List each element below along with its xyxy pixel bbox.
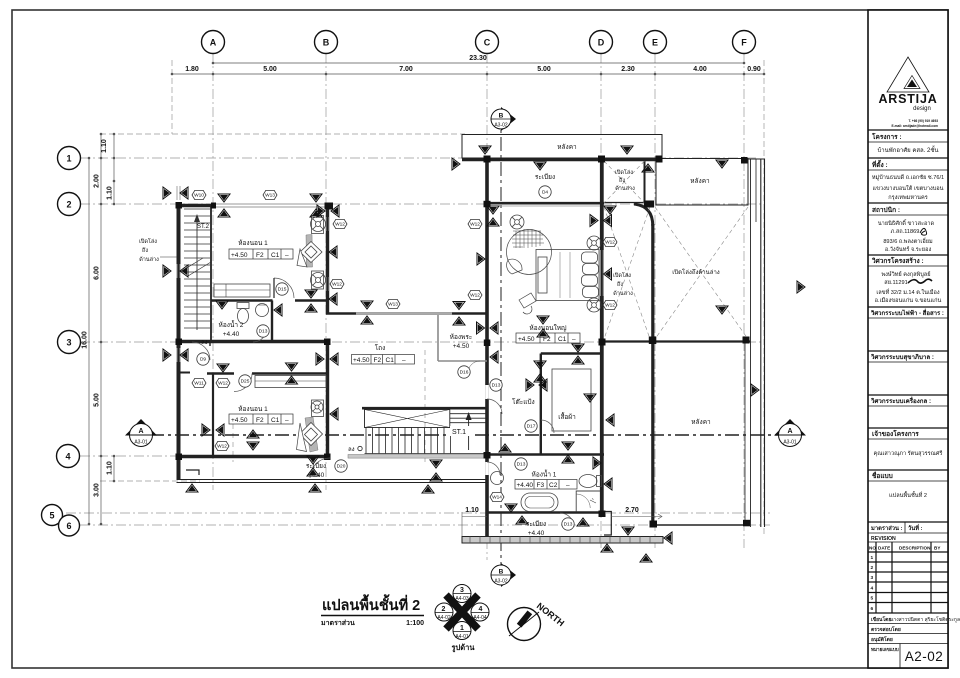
svg-text:ระเบียง: ระเบียง xyxy=(535,173,555,181)
bed upper-left bedroom (diagonal) xyxy=(297,235,322,268)
row bubble 4 xyxy=(57,445,80,468)
bathroom2 right wall xyxy=(271,301,273,343)
svg-text:3: 3 xyxy=(460,587,464,594)
section marker B top xyxy=(491,107,516,131)
svg-text:+4.50: +4.50 xyxy=(231,417,248,424)
svg-text:3: 3 xyxy=(66,338,71,348)
overall dim 23.30 xyxy=(213,62,744,64)
svg-text:23.30: 23.30 xyxy=(469,55,487,62)
svg-text:D9: D9 xyxy=(200,357,206,363)
svg-text:เขียนโดย: เขียนโดย xyxy=(871,616,891,623)
svg-text:เสื้อผ้า: เสื้อผ้า xyxy=(558,412,576,421)
svg-text:1: 1 xyxy=(460,625,464,632)
column bubble F xyxy=(733,31,756,54)
ceiling fan symbols master bedroom xyxy=(510,215,601,312)
desk upper bedroom xyxy=(214,284,270,297)
svg-text:W12: W12 xyxy=(218,381,228,387)
svg-text:2: 2 xyxy=(442,606,446,613)
svg-text:W11: W11 xyxy=(194,381,204,387)
svg-text:ถึง: ถึง xyxy=(141,247,148,254)
tag W12 B wall upper xyxy=(333,219,347,228)
tag D16 prayer xyxy=(458,366,470,378)
svg-text:A3-01: A3-01 xyxy=(783,440,797,446)
offset line row4+1.10 xyxy=(100,480,200,482)
section marker A left xyxy=(125,419,157,447)
svg-text:+4.50: +4.50 xyxy=(453,343,470,350)
row gridline 5 xyxy=(66,512,770,514)
svg-text:รูปด้าน: รูปด้าน xyxy=(452,643,476,653)
svg-text:ห้องนอนใหญ่: ห้องนอนใหญ่ xyxy=(529,324,567,332)
column gridline E xyxy=(654,53,656,548)
svg-text:W12: W12 xyxy=(332,282,342,288)
svg-text:ARSTIJA: ARSTIJA xyxy=(878,92,937,106)
svg-text:BY: BY xyxy=(934,546,940,551)
svg-text:นางสาวปนิตตา สุริยะโชติตระกูล: นางสาวปนิตตา สุริยะโชติตระกูล xyxy=(890,616,960,623)
svg-text:D15: D15 xyxy=(278,287,287,293)
balcony door mark lower-left xyxy=(186,470,199,475)
top wall of upper-left bedroom xyxy=(177,204,215,207)
svg-text:5.00: 5.00 xyxy=(537,66,551,73)
section line B vertical xyxy=(491,107,516,587)
prayer room walls xyxy=(438,315,487,361)
section marker A right xyxy=(774,419,806,447)
dresser stool xyxy=(519,293,536,314)
shower door arc xyxy=(576,494,590,508)
column squares xyxy=(176,156,751,528)
svg-text:4: 4 xyxy=(65,452,70,462)
svg-text:1.10: 1.10 xyxy=(101,139,108,153)
tag D9 xyxy=(197,353,209,365)
svg-text:+4.40: +4.40 xyxy=(223,331,240,338)
svg-text:โถง: โถง xyxy=(375,344,386,352)
svg-text:C1: C1 xyxy=(558,336,567,343)
row gridline 1 xyxy=(80,157,758,159)
right roof eave lines xyxy=(750,159,752,528)
tag W12 D wall lower xyxy=(603,300,617,309)
lower bedroom right wall xyxy=(326,342,329,458)
top dim extension verticals xyxy=(171,60,173,134)
column gridline D xyxy=(600,53,602,548)
thick vertical wall right of open area xyxy=(651,224,654,527)
svg-text:วิศวกรโครงสร้าง :: วิศวกรโครงสร้าง : xyxy=(872,256,924,265)
top roof band outline xyxy=(462,135,662,159)
tag W12 partition upper xyxy=(216,378,230,387)
svg-text:D20: D20 xyxy=(337,464,346,470)
tag D13 balcony right xyxy=(562,518,574,530)
row gridline 4 xyxy=(80,455,300,457)
svg-text:ด้านล่าง: ด้านล่าง xyxy=(613,290,633,297)
tag box bedroom1 upper xyxy=(229,249,293,259)
lower roof bottom edge xyxy=(656,524,750,526)
tag box hall xyxy=(352,355,415,365)
row3 wall left block xyxy=(177,340,331,343)
lower bedroom partition wall xyxy=(212,374,214,458)
svg-text:โครงการ :: โครงการ : xyxy=(871,132,902,141)
svg-text:ลง: ลง xyxy=(348,447,355,453)
X left strip open area xyxy=(604,207,650,339)
svg-text:–: – xyxy=(402,357,406,364)
fan/AC symbols on B wall xyxy=(311,217,326,288)
top dimension lines xyxy=(171,62,766,76)
row3 wall right section xyxy=(604,340,750,342)
left exterior wall xyxy=(177,203,181,480)
sitting room bottom wall with window xyxy=(326,312,487,315)
tag D25 hall xyxy=(239,375,251,387)
svg-text:DATE: DATE xyxy=(878,546,890,551)
svg-text:C1: C1 xyxy=(386,357,395,364)
svg-text:ห้องนอน 1: ห้องนอน 1 xyxy=(238,405,268,413)
svg-text:6: 6 xyxy=(66,521,71,531)
svg-text:W12: W12 xyxy=(217,444,227,450)
svg-text:F2: F2 xyxy=(256,252,264,259)
column gridline B xyxy=(325,53,327,490)
svg-text:W12: W12 xyxy=(470,293,480,299)
svg-text:เปิดโล่ง: เปิดโล่ง xyxy=(139,237,157,245)
svg-text:3.00: 3.00 xyxy=(94,483,101,497)
top-right roof outline xyxy=(656,159,748,206)
bathroom2 fixtures xyxy=(237,303,269,324)
svg-text:เปิดโล่งถึงด้านล่าง: เปิดโล่งถึงด้านล่าง xyxy=(672,268,720,276)
balcony D4 bottom edge xyxy=(489,202,645,204)
tag D13 master xyxy=(490,379,502,391)
stair shaft right edge xyxy=(210,205,212,342)
svg-text:W13: W13 xyxy=(265,193,275,199)
right wall of upper-left block (B wall) xyxy=(326,204,329,314)
svg-text:W12: W12 xyxy=(470,222,480,228)
svg-text:4: 4 xyxy=(871,586,874,592)
tag box bedroom1 lower xyxy=(229,414,293,424)
master bed xyxy=(536,250,599,301)
tag D13 bath1 xyxy=(515,458,527,470)
svg-text:กรุงเทพมหานคร: กรุงเทพมหานคร xyxy=(888,195,928,201)
row bubble 3 xyxy=(58,331,81,354)
svg-text:B: B xyxy=(499,113,504,120)
svg-text:B: B xyxy=(323,38,330,48)
svg-text:design: design xyxy=(913,106,931,112)
top exterior wall under roof band xyxy=(462,158,662,162)
small open room right wall (top) xyxy=(644,161,646,203)
svg-text:ระเบียง: ระเบียง xyxy=(306,462,326,470)
lower bedroom wardrobe strip xyxy=(255,376,326,388)
door swing D13 bath1 xyxy=(487,462,500,475)
column bubble C xyxy=(476,31,499,54)
svg-text:+4.50: +4.50 xyxy=(231,252,248,259)
svg-text:หมู่บ้านธนบดี ถ.เอกชัย ซ.76/1: หมู่บ้านธนบดี ถ.เอกชัย ซ.76/1 xyxy=(872,174,944,181)
svg-text:D17: D17 xyxy=(527,424,536,430)
svg-text:ด้านล่าง: ด้านล่าง xyxy=(139,256,159,263)
svg-text:F2: F2 xyxy=(374,357,382,364)
stair ST.1 xyxy=(362,408,487,453)
svg-text:2.70: 2.70 xyxy=(625,507,639,514)
offset line above row1 xyxy=(100,133,465,135)
tag W11 lower left xyxy=(192,378,206,387)
svg-text:A: A xyxy=(210,38,217,48)
row bubble 5 xyxy=(42,505,63,526)
hall lower floor band xyxy=(348,455,487,459)
tag box master bedroom xyxy=(516,333,580,343)
svg-text:C: C xyxy=(484,38,491,48)
bed lower bedroom (diagonal) xyxy=(297,400,324,452)
svg-text:6.00: 6.00 xyxy=(94,266,101,280)
door swing D17 closet xyxy=(541,420,554,433)
svg-text:หลังคา: หลังคา xyxy=(691,418,711,426)
tag D17 closet xyxy=(525,420,537,432)
svg-text:หมายเลขแบบ: หมายเลขแบบ xyxy=(871,647,899,652)
tag D4 balcony top xyxy=(539,186,551,198)
svg-text:A4-04: A4-04 xyxy=(473,615,487,621)
svg-text:วิศวกรระบบเครื่องกล :: วิศวกรระบบเครื่องกล : xyxy=(870,396,931,405)
svg-text:5: 5 xyxy=(49,511,54,521)
segment dim line xyxy=(172,73,764,75)
svg-text:1: 1 xyxy=(871,555,874,561)
svg-text:มาตราส่วน :: มาตราส่วน : xyxy=(871,525,903,532)
logo ARSTUA text xyxy=(878,92,938,128)
svg-text:6: 6 xyxy=(871,606,874,612)
svg-text:W12: W12 xyxy=(605,240,615,246)
svg-text:อ.วังจันทร์ จ.ระยอง: อ.วังจันทร์ จ.ระยอง xyxy=(885,245,932,253)
section line A horizontal xyxy=(125,419,806,447)
tag W12 C wall lower xyxy=(468,290,482,299)
svg-text:ST.2: ST.2 xyxy=(197,224,210,230)
tag W13 top xyxy=(263,190,277,199)
svg-text:เจ้าของโครงการ: เจ้าของโครงการ xyxy=(872,429,919,438)
column bubble B xyxy=(315,31,338,54)
svg-text:D4: D4 xyxy=(542,190,548,196)
svg-text:A4-02: A4-02 xyxy=(437,615,451,621)
svg-text:A4-01: A4-01 xyxy=(455,634,469,640)
svg-text:ระเบียง: ระเบียง xyxy=(526,520,546,528)
svg-text:893/6 ถ.พลงตาเอี่ยม: 893/6 ถ.พลงตาเอี่ยม xyxy=(883,237,933,245)
svg-text:NORTH: NORTH xyxy=(535,601,566,629)
row gridline 6 xyxy=(80,524,770,526)
master bedroom top wall (row2) xyxy=(487,203,604,205)
svg-text:D13: D13 xyxy=(492,383,501,389)
svg-text:1:100: 1:100 xyxy=(406,620,424,627)
bathroom1 pillar step xyxy=(604,512,611,536)
elevation reference symbol xyxy=(435,585,490,654)
svg-text:4.00: 4.00 xyxy=(693,66,707,73)
svg-text:+4.40: +4.40 xyxy=(517,482,534,489)
tag box bathroom1 xyxy=(515,480,577,490)
open-area dashed X diagonals xyxy=(604,161,748,339)
D wall (master bedroom right) xyxy=(600,160,604,514)
logo triangle xyxy=(887,57,929,92)
grid circles top xyxy=(42,31,756,537)
svg-text:ด้านล่าง: ด้านล่าง xyxy=(615,185,635,192)
svg-text:F2: F2 xyxy=(256,417,264,424)
bathroom1 fixtures xyxy=(491,472,602,512)
left dimension chains xyxy=(88,133,116,526)
svg-text:W13: W13 xyxy=(388,302,398,308)
svg-text:อ.เมืองขอนแก่น จ.ขอนแก่น: อ.เมืองขอนแก่น จ.ขอนแก่น xyxy=(875,297,942,304)
svg-text:คุณเสาวณุภา รัตนสุวรรณศรี: คุณเสาวณุภา รัตนสุวรรณศรี xyxy=(874,450,943,457)
svg-text:A: A xyxy=(787,428,792,435)
svg-text:D13: D13 xyxy=(259,329,268,335)
svg-text:ถึง: ถึง xyxy=(618,177,625,184)
tag W12 partition lower xyxy=(215,441,229,450)
svg-text:F: F xyxy=(741,38,747,48)
svg-text:เปิดโล่ง: เปิดโล่ง xyxy=(615,168,633,176)
svg-text:1.10: 1.10 xyxy=(465,507,479,514)
tag D20 balcony left xyxy=(335,460,347,472)
svg-text:T. +66 (90) 919 4693: T. +66 (90) 919 4693 xyxy=(908,119,938,123)
svg-text:สถาปนิก :: สถาปนิก : xyxy=(872,206,900,214)
svg-text:+4.40: +4.40 xyxy=(528,530,545,537)
balcony left bottom edge xyxy=(177,480,488,483)
svg-text:–: – xyxy=(566,482,570,489)
section marker B bottom xyxy=(491,563,516,587)
svg-text:7.00: 7.00 xyxy=(399,66,413,73)
gray floor bands xyxy=(348,455,663,544)
svg-text:สย.11291: สย.11291 xyxy=(884,279,907,286)
svg-text:วิศวกรระบบสุขาภิบาล :: วิศวกรระบบสุขาภิบาล : xyxy=(870,353,934,361)
svg-text:1.10: 1.10 xyxy=(107,186,114,200)
svg-text:W12: W12 xyxy=(335,222,345,228)
row bubble 1 xyxy=(58,147,81,170)
row bubble 2 xyxy=(58,193,81,216)
dashed opening edge line xyxy=(424,350,426,462)
vent pair top wall left block xyxy=(218,194,230,202)
svg-text:DESCRIPTION: DESCRIPTION xyxy=(899,546,931,551)
svg-text:–: – xyxy=(572,336,576,343)
svg-text:2: 2 xyxy=(66,200,71,210)
svg-text:F3: F3 xyxy=(537,482,545,489)
svg-text:เลขที่ 32/2 ม.14 ต.ในเมือง: เลขที่ 32/2 ม.14 ต.ในเมือง xyxy=(876,288,940,296)
svg-text:หลังคา: หลังคา xyxy=(690,177,710,185)
bathroom2 top wall xyxy=(211,299,273,301)
closet top wall xyxy=(541,352,602,354)
lower bedroom north wall xyxy=(207,372,234,374)
svg-text:–: – xyxy=(285,252,289,259)
door swing D9 xyxy=(192,342,210,360)
svg-text:C1: C1 xyxy=(271,417,280,424)
tag W10 xyxy=(192,190,206,199)
column gridline C xyxy=(486,53,488,560)
svg-text:ภ.สถ.11869: ภ.สถ.11869 xyxy=(891,228,920,235)
svg-text:D: D xyxy=(598,38,605,48)
column gridline A xyxy=(212,53,214,490)
window in top wall xyxy=(214,204,326,207)
svg-text:D13: D13 xyxy=(564,522,573,528)
svg-text:E-mail: arstijade@hotmail.com: E-mail: arstijade@hotmail.com xyxy=(891,124,938,128)
svg-text:แขวงบางบอนใต้ เขตบางบอน: แขวงบางบอนใต้ เขตบางบอน xyxy=(873,185,944,192)
rows xyxy=(868,129,948,131)
svg-text:1.10: 1.10 xyxy=(107,461,114,475)
svg-text:แปลนพื้นชั้นที่ 2: แปลนพื้นชั้นที่ 2 xyxy=(889,491,927,499)
svg-text:ห้องพระ: ห้องพระ xyxy=(450,333,473,341)
svg-text:0.90: 0.90 xyxy=(747,66,761,73)
row bubble 6 xyxy=(59,515,80,536)
svg-text:+4.50: +4.50 xyxy=(518,336,535,343)
svg-text:REVISION: REVISION xyxy=(871,536,896,542)
door swing D16 prayer xyxy=(468,361,480,373)
svg-text:A3-02: A3-02 xyxy=(494,579,508,585)
svg-text:–: – xyxy=(285,417,289,424)
svg-text:5: 5 xyxy=(871,596,874,602)
curved corner wall xyxy=(634,204,653,226)
svg-text:16.00: 16.00 xyxy=(82,331,89,349)
tag W13 sitting room bottom xyxy=(386,299,400,308)
svg-text:2.00: 2.00 xyxy=(94,174,101,188)
svg-text:มาตราส่วน: มาตราส่วน xyxy=(321,619,355,627)
svg-text:4: 4 xyxy=(479,606,483,613)
row gridline 3 xyxy=(80,341,762,343)
svg-text:A4-03: A4-03 xyxy=(455,596,469,602)
svg-text:B: B xyxy=(499,569,504,576)
svg-text:ห้องนอน 1: ห้องนอน 1 xyxy=(238,239,268,247)
row gridline 2 xyxy=(80,203,762,205)
svg-text:W12: W12 xyxy=(605,303,615,309)
svg-text:W14: W14 xyxy=(492,495,502,501)
column gridline F xyxy=(743,53,745,548)
svg-text:NO: NO xyxy=(869,546,876,551)
lower roof left inner edge xyxy=(744,342,746,526)
svg-text:D13: D13 xyxy=(517,462,526,468)
door swing D15 upper xyxy=(274,278,294,298)
tag W12 D wall upper xyxy=(603,237,617,246)
svg-text:พงษ์วิทย์ คงกุลพิบูลย์: พงษ์วิทย์ คงกุลพิบูลย์ xyxy=(882,270,931,278)
svg-text:อนุมัติโดย: อนุมัติโดย xyxy=(871,636,893,643)
svg-text:D25: D25 xyxy=(241,379,250,385)
tag D13 bath2 xyxy=(257,325,269,337)
door swing D20 balcony left xyxy=(310,458,330,478)
window hexagon tags xyxy=(192,190,617,501)
north arrow xyxy=(508,601,567,641)
AC unit boxes on B wall xyxy=(312,216,324,290)
svg-text:W10: W10 xyxy=(194,193,204,199)
C wall (hall / master bedroom divider) xyxy=(485,160,489,543)
svg-text:2: 2 xyxy=(871,565,874,571)
svg-text:โต๊ะแป้ง: โต๊ะแป้ง xyxy=(512,398,535,406)
door circle tags xyxy=(197,186,574,530)
svg-text:ห้องน้ำ 1: ห้องน้ำ 1 xyxy=(532,470,557,479)
tag D15 upper xyxy=(276,283,288,295)
svg-text:+4.50: +4.50 xyxy=(353,357,370,364)
svg-text:A2-02: A2-02 xyxy=(905,649,944,664)
svg-text:เปิดโล่ง: เปิดโล่ง xyxy=(613,271,631,279)
X big open area xyxy=(655,207,748,339)
closet left wall xyxy=(540,354,542,456)
right balcony hatched band xyxy=(462,537,663,544)
svg-text:1: 1 xyxy=(66,154,71,164)
svg-text:A3-01: A3-01 xyxy=(134,440,148,446)
bottom wall lower-left block xyxy=(177,455,331,458)
window/vent triangle markers (all walls) xyxy=(163,146,805,562)
svg-text:A3-02: A3-02 xyxy=(494,123,508,129)
svg-text:ห้องน้ำ 2: ห้องน้ำ 2 xyxy=(219,320,244,329)
ST.1 label xyxy=(450,426,472,436)
svg-text:2.30: 2.30 xyxy=(621,66,635,73)
svg-text:3: 3 xyxy=(871,575,874,581)
svg-text:1.80: 1.80 xyxy=(185,66,199,73)
svg-text:ST.1: ST.1 xyxy=(452,429,466,436)
door swing D13 master xyxy=(487,399,502,414)
bathroom1 bottom wall xyxy=(487,511,604,514)
svg-text:A: A xyxy=(138,428,143,435)
column bubble D xyxy=(590,31,613,54)
tag W12 B wall lower xyxy=(330,279,344,288)
column bubble A xyxy=(202,31,225,54)
svg-text:ตรวจสอบโดย: ตรวจสอบโดย xyxy=(871,626,901,633)
svg-text:แปลนพื้นชั้นที่ 2: แปลนพื้นชั้นที่ 2 xyxy=(322,594,420,614)
tag W14 bath wall xyxy=(490,492,504,501)
svg-text:5.00: 5.00 xyxy=(263,66,277,73)
stair ST.2 xyxy=(180,209,211,330)
svg-text:ถึง: ถึง xyxy=(616,281,623,288)
svg-text:หลังคา: หลังคา xyxy=(557,143,577,151)
svg-text:C1: C1 xyxy=(271,252,280,259)
door swing D13 balcony xyxy=(560,513,574,527)
